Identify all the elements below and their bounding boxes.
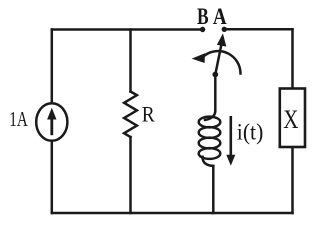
node A contact dot — [222, 27, 227, 32]
switch arc arrowhead — [192, 53, 205, 63]
current source arrow — [47, 108, 56, 135]
node B contact dot — [200, 27, 205, 32]
wire resistor branch bottom — [129, 137, 132, 213]
wire left vertical — [51, 30, 54, 214]
wire top left segment — [52, 28, 203, 31]
svg-text:i(t): i(t) — [237, 119, 263, 145]
switch blade arrowhead — [217, 33, 226, 46]
wire right vertical — [291, 29, 294, 213]
wire coil to bottom — [212, 166, 215, 213]
svg-text:R: R — [142, 102, 155, 127]
switch motion arc — [205, 51, 241, 73]
wire top right segment — [224, 28, 292, 31]
current arrow i(t) — [226, 116, 235, 166]
wire resistor branch top — [129, 30, 132, 92]
svg-text:X: X — [283, 104, 298, 134]
inductor L coil — [199, 110, 221, 166]
resistor R — [124, 92, 137, 138]
switch blade — [215, 46, 221, 75]
element X box — [280, 89, 305, 148]
svg-text:B: B — [197, 4, 209, 29]
svg-text:A: A — [213, 4, 227, 29]
switch pivot junction dot — [212, 72, 218, 78]
current source I1 circle — [36, 103, 67, 141]
wire switch pivot to coil — [214, 75, 217, 111]
wire bottom — [52, 212, 293, 215]
svg-text:1A: 1A — [9, 107, 28, 131]
